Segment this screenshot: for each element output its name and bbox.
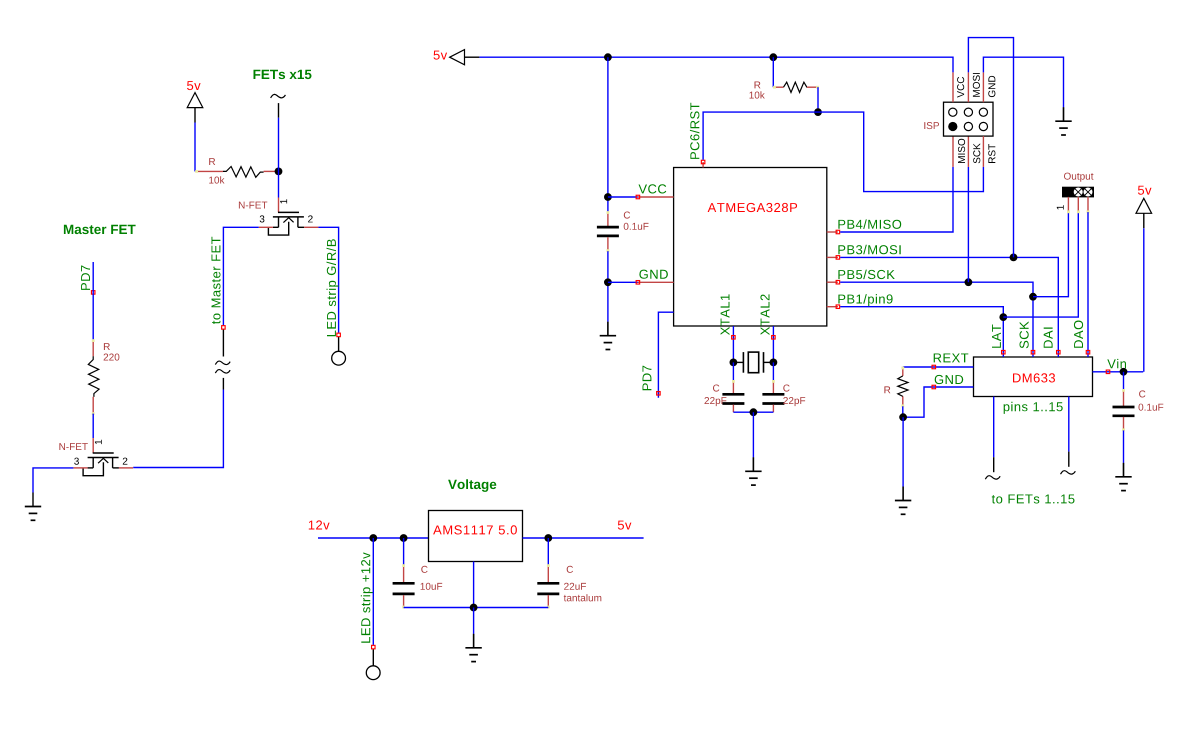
junction R3 / RST net bbox=[814, 108, 822, 116]
wire R4 to ground node bbox=[902, 406, 904, 417]
pin ISP GND stub bbox=[982, 72, 984, 102]
pin label GND (U1) bbox=[639, 270, 668, 279]
label Output bbox=[1064, 173, 1093, 182]
IC U2 DM633 body bbox=[974, 357, 1093, 397]
wire below flag (black) bbox=[222, 330, 224, 357]
junction 5v out / C3 branch bbox=[544, 534, 552, 542]
pin PB4/MISO of U1 bbox=[827, 231, 838, 233]
wire rail to ground bbox=[752, 412, 754, 457]
pin label VCC (ISP) bbox=[957, 77, 964, 98]
ISP pads top row bbox=[949, 108, 957, 116]
section title Master FET bbox=[64, 225, 136, 234]
net flag square PD7 bbox=[91, 291, 95, 295]
junction 5v rail / ATMEGA VCC branch bbox=[604, 53, 612, 61]
label 5v (top-left cell) bbox=[187, 81, 201, 90]
wire 5v top rail to ISP VCC bbox=[479, 57, 953, 72]
transistor Q1 N-FET (FETs x15) bbox=[259, 198, 319, 236]
label 10k (R1) bbox=[209, 176, 224, 183]
junction ground rail bbox=[470, 604, 478, 612]
ground symbol (DM633) bbox=[895, 487, 911, 515]
net label LED strip G/R/B bbox=[327, 239, 339, 336]
pin label XTAL2 (U1) bbox=[760, 294, 769, 335]
ground symbol (ISP GND) bbox=[1055, 107, 1071, 135]
wire break (to LED strip, off-page) above Q1 drain net bbox=[271, 94, 286, 98]
label N-FET (Q1) bbox=[239, 202, 267, 209]
pin label PB5/SCK (U1) bbox=[838, 270, 894, 280]
net label PD7 (master gate) bbox=[81, 266, 90, 290]
label 22pF (C6) bbox=[783, 397, 805, 406]
wire 5v rail down to R3 bbox=[772, 57, 774, 87]
pin label PB3/MOSI (U1) bbox=[838, 245, 900, 255]
supply 5v arrow (top rail, left) bbox=[450, 50, 480, 65]
wire to connector circle (black) bbox=[372, 649, 374, 665]
pin 3 label (Q2 source) bbox=[74, 458, 79, 465]
section title FETs x15 bbox=[254, 70, 312, 79]
wire drain net vertical (black end) bbox=[278, 103, 280, 118]
connector circle (LED strip +12v) bbox=[366, 666, 380, 680]
pin label DAI (U2) bbox=[1044, 328, 1053, 348]
pin ISP VCC stub bbox=[952, 72, 954, 102]
net flag square PD7 (U1) bbox=[657, 392, 661, 396]
junction crystal ground rail bbox=[750, 408, 758, 416]
net label pins 1..15 bbox=[1004, 402, 1063, 414]
label C (C3) bbox=[567, 566, 573, 573]
pin PC6/RST of U1 bbox=[702, 162, 704, 168]
supply 5v arrow (top-left cell) bbox=[187, 93, 203, 123]
wire ISP MOSI branch bbox=[968, 38, 1013, 258]
label 10k (R3) bbox=[750, 91, 765, 98]
pin VCC of U1 bbox=[638, 196, 674, 198]
label C (C4) bbox=[1139, 390, 1145, 397]
net flag square 'to Master FET' bbox=[222, 326, 226, 330]
pin label RST (ISP) bbox=[988, 144, 995, 163]
wire break (to FETs, right) bbox=[1061, 471, 1076, 475]
wire resumes below break bbox=[222, 378, 224, 390]
wire 5v to R1 bbox=[194, 123, 196, 172]
junction VCC node bbox=[604, 193, 612, 201]
pin PB5/SCK of U1 bbox=[827, 281, 838, 283]
label C (C6) bbox=[783, 385, 789, 392]
pin label PC6/RST (U1) bbox=[690, 103, 700, 159]
wire XTAL1 to C5 bbox=[732, 362, 734, 381]
pin 2 label (Q1 drain) bbox=[308, 215, 313, 222]
wire Q1 source to 'to Master FET' net bbox=[223, 227, 258, 325]
junction GND node bbox=[604, 278, 612, 286]
label 5v (top rail) bbox=[434, 51, 448, 60]
connector Output body bbox=[1063, 187, 1094, 197]
wire VCC branch (5v rail to VCC pin and C1) bbox=[607, 57, 609, 212]
transistor Q2 N-FET (Master FET) bbox=[73, 438, 133, 476]
pin GND of U2 bbox=[903, 387, 973, 417]
crystal Q1 (quartz) bbox=[733, 352, 773, 373]
IC U1 ATMEGA328P body bbox=[674, 168, 827, 327]
pin 2 label (Q2 drain) bbox=[123, 458, 128, 465]
supply 5v arrow (right) bbox=[1136, 198, 1152, 228]
pin label PB1/pin9 (U1) bbox=[838, 294, 892, 306]
junction SCK / Output pin1 branch bbox=[1029, 293, 1037, 301]
wire drain net vertical to Q1 gate bbox=[278, 118, 280, 198]
wire SCK to Output pin1 bbox=[1033, 212, 1068, 297]
pin label GND (ISP) bbox=[988, 76, 995, 97]
pin label PB4/MISO (U1) bbox=[838, 219, 901, 229]
connector circle (LED strip G/R/B) bbox=[332, 351, 346, 365]
pin PB1/pin9 of U1 bbox=[827, 306, 838, 308]
junction Vin / C4 bbox=[1120, 368, 1128, 376]
junction 12v / LED strip branch bbox=[369, 534, 377, 542]
wire ISP SCK branch bbox=[967, 167, 969, 282]
capacitor C6 22pF bbox=[762, 380, 784, 412]
pin label VCC (U1) bbox=[639, 184, 667, 193]
resistor R3 10k (RST pull-up) bbox=[773, 82, 819, 92]
resistor R4 (REXT) bbox=[898, 367, 908, 408]
wire PC6/RST to ISP RST bbox=[703, 112, 983, 192]
wire GND node down (black end) bbox=[607, 322, 609, 336]
label 5v (right) bbox=[1138, 186, 1152, 195]
pin 3 label (Q1 source) bbox=[260, 215, 265, 222]
wire Q2 source to ground bbox=[33, 468, 73, 493]
capacitor C3 22uF tantalum bbox=[537, 538, 559, 608]
wire XTAL2 to C6 bbox=[772, 362, 774, 381]
pin label DAO (U2) bbox=[1074, 321, 1083, 348]
wire crystal caps ground rail bbox=[733, 411, 773, 413]
label 0.1uF (C4) bbox=[1139, 404, 1164, 411]
IC U3 AMS1117 5.0 body bbox=[429, 511, 523, 562]
pin label MOSI (ISP) bbox=[973, 73, 980, 97]
label R (R2) bbox=[104, 343, 110, 350]
capacitor C5 22pF bbox=[722, 380, 744, 412]
capacitor C2 10uF bbox=[393, 538, 415, 608]
pin label MISO (ISP) bbox=[958, 139, 965, 163]
pin 1 label (Output) bbox=[1057, 205, 1064, 209]
ground symbol (crystal) bbox=[745, 457, 761, 485]
junction MOSI / ISP branch bbox=[1010, 254, 1018, 262]
pin ISP SCK stub bbox=[967, 136, 969, 167]
capacitor C1 0.1uF (decoupling) bbox=[597, 211, 619, 252]
pin GND of U1 bbox=[638, 281, 674, 283]
pin label SCK (ISP) bbox=[973, 143, 980, 163]
pin PB3/MOSI of U1 bbox=[827, 256, 838, 258]
pin label GND (U2) bbox=[935, 375, 964, 384]
junction R4/GND bbox=[899, 413, 907, 421]
label R (R1) bbox=[209, 158, 215, 165]
ISP pads bottom row (pin1 filled) bbox=[948, 122, 957, 131]
pin 1 label (Q2 gate) bbox=[95, 440, 102, 444]
wire Output pin3 to DM633 DAO bbox=[1087, 212, 1089, 352]
label 12v bbox=[309, 520, 330, 529]
label 10uF (C2) bbox=[421, 583, 443, 590]
wire LED strip +12v branch bbox=[372, 538, 374, 645]
label 220 (R2) bbox=[104, 354, 120, 361]
wire to ground (DM633) bbox=[902, 417, 904, 486]
resistor R1 10k (pull-up, FET cell) bbox=[195, 167, 278, 178]
wire R3 to RST net bbox=[817, 87, 819, 112]
connector ISP header body bbox=[944, 102, 994, 136]
wire PD7 to R2 bbox=[92, 262, 94, 341]
junction 12v / C2 branch bbox=[400, 534, 408, 542]
net label PD7 (U1) bbox=[643, 366, 652, 390]
net label to FETs 1..15 bbox=[992, 495, 1075, 504]
junction XTAL2 / crystal bbox=[770, 359, 778, 367]
wire R2 to Q2 gate bbox=[92, 414, 94, 439]
pin REXT of U2 bbox=[903, 366, 974, 368]
pin GND of U3 (center) bbox=[473, 562, 475, 608]
wire GND node to pin bbox=[608, 281, 638, 283]
wire PB4/MISO to ISP MISO bbox=[840, 167, 953, 232]
net flag square LED strip +12v bbox=[372, 645, 376, 649]
capacitor C4 0.1uF (Vin) bbox=[1113, 372, 1135, 431]
net label to Master FET bbox=[212, 237, 221, 324]
ground symbol (regulator) bbox=[465, 634, 481, 662]
resistor R2 220 (gate) bbox=[88, 339, 99, 415]
wire 5v arrow to Vin bbox=[1143, 228, 1145, 372]
pin label REXT (U2) bbox=[934, 354, 969, 363]
junction R1/gate of Q1 bbox=[275, 168, 283, 176]
wire PB5/SCK to DM633 SCK bbox=[840, 282, 1033, 352]
label AMS1117 5.0 bbox=[433, 525, 517, 534]
label 5v (regulator output) bbox=[618, 521, 632, 530]
wire PB1/pin9 to DM633 LAT bbox=[840, 307, 1003, 353]
pin 1 label (Q1 gate) bbox=[280, 199, 287, 203]
ground symbol (C4) bbox=[1115, 463, 1131, 491]
label R (R4) bbox=[884, 386, 890, 393]
label DM633 bbox=[1013, 373, 1055, 382]
label 22uF (C3) bbox=[564, 583, 586, 590]
junction LAT / Output pin2 branch bbox=[999, 313, 1007, 321]
pin stubs Output bbox=[1067, 197, 1069, 212]
wire break (to FETs, left) bbox=[985, 476, 1000, 480]
wire U2 output pins (to FETs), left bbox=[993, 397, 995, 458]
wire LAT to Output pin2 bbox=[1003, 212, 1078, 317]
wire Q1 drain to LED strip G/R/B bbox=[318, 227, 338, 332]
label R (R3) bbox=[755, 82, 761, 89]
wire PB3/MOSI to DM633 DAI bbox=[840, 257, 1058, 352]
label ATMEGA328P bbox=[708, 203, 798, 212]
pin label Vin (U2) bbox=[1107, 359, 1126, 368]
wire regulator ground rail bbox=[404, 607, 549, 609]
net label LED strip +12v bbox=[361, 552, 373, 642]
label 22pF (C5) bbox=[705, 397, 727, 406]
label 0.1uF (C1) bbox=[624, 223, 649, 230]
wire break marks (to Master FET net) bbox=[215, 361, 230, 365]
pin label SCK (U2) bbox=[1020, 321, 1029, 348]
wire 12v input rail bbox=[318, 537, 429, 539]
pin squares LAT/SCK/DAI/DAO (U2) bbox=[1002, 352, 1004, 357]
label C (C2) bbox=[421, 566, 427, 573]
ground symbol (C1/GND) bbox=[600, 322, 616, 350]
ground symbol (master FET) bbox=[25, 493, 41, 521]
label C (C1) bbox=[624, 212, 630, 219]
pin ISP MISO stub bbox=[952, 136, 954, 167]
pin XTAL1 of U1 bbox=[732, 326, 734, 362]
wire ISP GND to ground bbox=[983, 57, 1063, 107]
wire VCC node to pin bbox=[608, 196, 638, 198]
wire C4 to ground bbox=[1123, 430, 1125, 463]
label ISP bbox=[924, 122, 939, 129]
pin ISP MOSI stub bbox=[967, 72, 969, 102]
pin XTAL2 of U1 bbox=[772, 326, 774, 362]
net flag square LED strip G/R/B bbox=[337, 333, 341, 337]
pin ISP RST stub bbox=[982, 136, 984, 167]
section title Voltage bbox=[448, 479, 496, 492]
wire U1 PD7 pin to flag bbox=[658, 312, 673, 398]
junction 5v rail / R3 branch bbox=[769, 53, 777, 61]
wire U2 output pins (to FETs), right bbox=[1068, 397, 1070, 452]
wire C1 to GND node bbox=[607, 251, 609, 322]
label C (C5) bbox=[713, 385, 719, 392]
pin label LAT (U2) bbox=[992, 325, 1001, 348]
label N-FET (Q2) bbox=[59, 443, 87, 450]
junction XTAL1 / crystal bbox=[730, 359, 738, 367]
label tantalum (C3) bbox=[564, 594, 602, 601]
wire 5v output rail bbox=[523, 537, 644, 539]
wire to connector circle (black) bbox=[338, 337, 340, 351]
wire to master FET drain bbox=[133, 390, 223, 468]
pin label XTAL1 (U1) bbox=[721, 294, 730, 335]
pin Vin of U2 bbox=[1093, 371, 1144, 373]
junction SCK / ISP branch bbox=[965, 278, 973, 286]
wire rail to ground bbox=[473, 608, 475, 634]
